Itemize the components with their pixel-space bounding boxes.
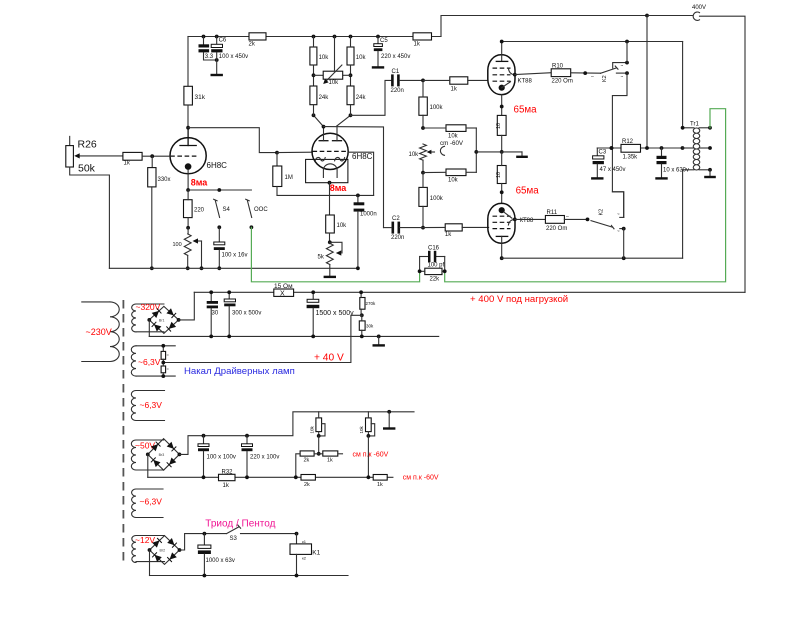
svg-text:24k: 24k [319,95,330,101]
svg-text:10k: 10k [359,425,364,433]
svg-text:10: 10 [496,172,502,178]
svg-text:C16: C16 [428,246,440,252]
svg-text:C1: C1 [392,69,400,75]
svg-text:2k: 2k [304,457,310,463]
svg-text:220n: 220n [391,235,404,241]
svg-text:1.35k: 1.35k [623,154,639,160]
svg-text:8ма: 8ма [191,178,209,188]
svg-text:S3: S3 [230,536,238,542]
svg-text:R26: R26 [78,139,97,151]
svg-text:Триод / Пентод: Триод / Пентод [205,518,275,529]
svg-text:C5: C5 [380,38,388,44]
svg-text:10k: 10k [356,55,367,61]
svg-text:~12V: ~12V [135,535,155,545]
svg-text:Накал Драйверных ламп: Накал Драйверных ламп [184,366,295,377]
svg-text:K2: K2 [599,209,605,216]
svg-text:10k: 10k [409,152,420,158]
svg-text:~6,3V: ~6,3V [140,400,163,410]
svg-text:1k: 1k [445,232,452,238]
svg-text:cm -60V: cm -60V [440,140,464,147]
svg-text:2k: 2k [249,41,256,47]
svg-text:~50V: ~50V [135,441,155,451]
svg-text:1500 x 500v: 1500 x 500v [316,310,355,317]
svg-text:100 x 16v: 100 x 16v [222,253,248,259]
svg-text:K2: K2 [602,75,608,82]
svg-text:1k: 1k [451,86,458,92]
svg-text:5k: 5k [318,255,325,261]
svg-text:OOC: OOC [254,207,268,213]
svg-text:10k: 10k [310,425,315,433]
svg-text:1k: 1k [124,161,131,167]
svg-text:~6,3V: ~6,3V [138,357,161,367]
svg-text:10k: 10k [329,80,340,86]
svg-text:100: 100 [173,242,182,248]
svg-text:1000 x 63v: 1000 x 63v [206,558,235,564]
svg-text:R11: R11 [547,210,558,216]
svg-text:1M: 1M [285,175,293,181]
svg-text:220 x 100v: 220 x 100v [250,455,279,461]
svg-text:R12: R12 [622,139,634,145]
svg-text:24k: 24k [356,95,367,101]
svg-text:6Н8С: 6Н8С [352,152,373,161]
svg-text:C3: C3 [599,149,607,155]
svg-text:X: X [280,290,285,297]
svg-text:6Н8С: 6Н8С [207,161,228,170]
svg-text:30k: 30k [366,324,374,329]
svg-text:220 x 450v: 220 x 450v [381,54,410,60]
svg-text:см п.к -60V: см п.к -60V [353,451,389,458]
svg-text:30: 30 [212,311,219,317]
svg-text:220 Om: 220 Om [552,79,573,85]
svg-text:100 x 450v: 100 x 450v [219,54,248,60]
svg-text:см п.к -60V: см п.к -60V [403,474,439,481]
svg-text:100k: 100k [430,196,444,202]
svg-text:1k: 1k [223,483,230,489]
svg-text:1k: 1k [327,457,333,463]
svg-text:10k: 10k [337,223,348,229]
svg-text:C2: C2 [392,216,400,222]
svg-text:+ 400 V под нагрузкой: + 400 V под нагрузкой [470,294,568,305]
svg-text:1000n: 1000n [360,211,377,217]
svg-text:10k: 10k [448,133,459,139]
svg-text:220n: 220n [391,88,404,94]
svg-text:+ 40 V: + 40 V [314,352,344,363]
svg-text:220 Om: 220 Om [546,226,567,232]
svg-text:300 x 500v: 300 x 500v [232,311,261,317]
svg-text:–: – [591,74,594,80]
svg-text:50k: 50k [78,163,96,175]
svg-text:400V: 400V [692,5,706,11]
svg-text:10k: 10k [319,55,330,61]
svg-text:~6,3V: ~6,3V [140,497,163,507]
svg-text:~230V: ~230V [86,327,112,337]
svg-text:1k: 1k [377,482,383,488]
svg-text:65ма: 65ма [514,104,538,115]
svg-text:C6: C6 [219,38,227,44]
svg-text:КТ88: КТ88 [520,218,534,224]
svg-text:31k: 31k [195,94,206,101]
svg-text:~: ~ [621,74,624,79]
svg-text:S4: S4 [223,207,231,213]
svg-text:8ма: 8ма [330,183,348,193]
svg-text:65ма: 65ма [516,185,540,196]
svg-text:10: 10 [496,123,502,129]
svg-text:KT88: KT88 [518,79,533,85]
svg-text:1k: 1k [414,41,421,47]
svg-text:47 x 450v: 47 x 450v [600,167,626,173]
svg-text:270k: 270k [366,301,377,306]
svg-text:~: ~ [617,212,620,217]
svg-text:3.3: 3.3 [205,54,214,60]
svg-text:Br2: Br2 [160,549,166,553]
svg-text:~: ~ [621,63,624,68]
svg-text:2k: 2k [304,482,310,488]
svg-text:Br1: Br1 [159,318,165,322]
svg-text:330x: 330x [158,177,171,183]
svg-text:Br3: Br3 [159,453,165,457]
svg-text:100 x 100v: 100 x 100v [207,455,236,461]
svg-text:~320V: ~320V [136,302,161,312]
svg-text:~: ~ [617,229,620,234]
svg-text:100k: 100k [430,105,444,111]
svg-text:220: 220 [194,208,205,214]
svg-text:10k: 10k [448,178,459,184]
svg-text:K1: K1 [312,549,320,556]
svg-text:R10: R10 [552,63,564,69]
svg-text:Tr1: Tr1 [690,122,699,128]
svg-text:22k: 22k [430,276,441,282]
svg-text:–: – [566,214,569,220]
